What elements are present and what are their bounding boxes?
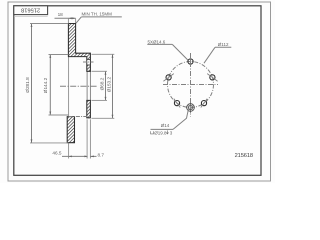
svg-text:Ø68.2: Ø68.2 (99, 77, 104, 90)
svg-text:46.5: 46.5 (52, 151, 62, 156)
svg-text:Ø144.2: Ø144.2 (43, 77, 48, 93)
svg-text:MIN TH. 15MM: MIN TH. 15MM (82, 12, 113, 17)
svg-text:18: 18 (58, 12, 64, 17)
svg-text:5XØ14.6: 5XØ14.6 (148, 39, 166, 44)
svg-text:215618: 215618 (21, 7, 40, 13)
svg-text:Ø112: Ø112 (218, 42, 229, 47)
svg-text:Ø153.2: Ø153.2 (107, 76, 112, 92)
svg-text:Ø14: Ø14 (161, 123, 170, 128)
svg-text:Ø281.8: Ø281.8 (25, 77, 30, 93)
svg-text:8.7: 8.7 (98, 153, 105, 158)
svg-text:215618: 215618 (235, 153, 253, 159)
svg-text:Ø19.8: Ø19.8 (154, 130, 167, 135)
